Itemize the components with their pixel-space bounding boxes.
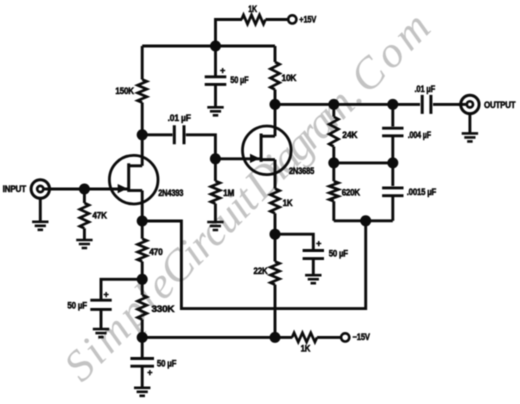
svg-text:24K: 24K [342,130,358,140]
svg-text:47K: 47K [92,211,107,221]
svg-text:OUTPUT: OUTPUT [484,100,516,110]
svg-text:1K: 1K [301,344,311,354]
svg-text:+: + [147,367,152,377]
svg-text:1K: 1K [283,198,293,208]
svg-text:150K: 150K [115,86,134,96]
svg-text:.01 µF: .01 µF [168,113,192,123]
svg-text:+: + [316,239,321,249]
svg-text:330K: 330K [152,304,176,314]
svg-text:.0015 µF: .0015 µF [407,187,437,197]
svg-text:+: + [103,290,108,300]
svg-text:1K: 1K [248,4,257,14]
svg-text:2N4393: 2N4393 [158,188,183,198]
svg-text:470: 470 [149,247,163,257]
svg-text:.01 µF: .01 µF [415,84,436,94]
svg-text:−15V: −15V [353,332,370,342]
svg-text:50 µF: 50 µF [329,248,349,258]
svg-text:10K: 10K [282,73,297,83]
svg-text:50 µF: 50 µF [67,300,87,310]
svg-text:1M: 1M [223,188,234,198]
svg-text:2N3685: 2N3685 [289,166,314,176]
svg-text:50 µF: 50 µF [230,75,249,85]
svg-text:.004 µF: .004 µF [408,130,432,140]
svg-text:+15V: +15V [299,15,316,25]
svg-text:INPUT: INPUT [3,184,27,194]
svg-text:22K: 22K [254,266,269,276]
svg-text:50 µF: 50 µF [157,358,177,368]
svg-text:+: + [220,65,225,75]
svg-text:620K: 620K [342,188,361,198]
